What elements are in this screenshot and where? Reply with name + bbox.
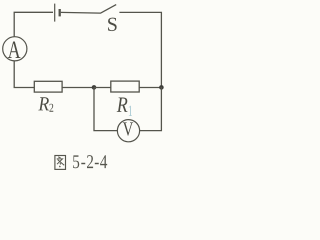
node B junction dot xyxy=(159,85,164,90)
label R1: subscript 1 (light blue) xyxy=(129,106,132,116)
wire: node A to R1 xyxy=(94,87,111,89)
resistor R1 box xyxy=(111,81,139,92)
node A junction dot xyxy=(92,85,97,90)
voltmeter V circle xyxy=(117,120,139,142)
label R2: subscript 2 xyxy=(49,104,53,112)
wire: top-left corner, top wire to battery, left vertical to ammeter xyxy=(14,12,53,36)
resistor R2 box xyxy=(34,81,62,92)
wire: ammeter to bottom-left corner to R2 xyxy=(14,61,34,88)
caption hyphen xyxy=(81,163,85,164)
wire: battery to switch hinge xyxy=(61,11,101,14)
caption text 5 xyxy=(73,155,79,168)
voltmeter letter V xyxy=(123,122,133,135)
battery long plate xyxy=(54,4,56,22)
wire: R2 to node A xyxy=(62,87,94,89)
label R1: letter R xyxy=(117,97,128,111)
caption text 4 xyxy=(100,155,107,168)
wire: switch to top-right corner, right vertical down to node B xyxy=(119,12,161,88)
label R2: letter R xyxy=(38,97,49,110)
caption hyphen xyxy=(95,163,99,164)
caption text 2 xyxy=(87,155,93,168)
ammeter A circle xyxy=(3,37,27,61)
wire: R1 to node B xyxy=(139,87,161,89)
switch S lever (open) xyxy=(100,5,116,14)
wire: node A down and right to voltmeter xyxy=(94,88,117,131)
wire: voltmeter to right vertical below node B xyxy=(140,87,162,131)
label S xyxy=(108,18,117,31)
battery short plate xyxy=(59,9,61,16)
caption hanzi (drawn box-enclosure glyph) xyxy=(55,156,66,170)
ammeter letter A xyxy=(8,41,21,58)
